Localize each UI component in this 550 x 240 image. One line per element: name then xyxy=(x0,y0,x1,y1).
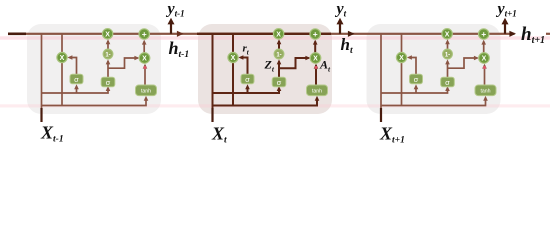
multiplier node (1-z)*h cell t+1 xyxy=(442,29,452,39)
update gate sigma cell t xyxy=(272,77,286,87)
reset multiplier node cell t-1 xyxy=(57,52,67,62)
wire tanh output to multiplier cell t xyxy=(315,65,317,85)
svg-text:X: X xyxy=(142,56,147,63)
input wire Xt rising into cell t xyxy=(212,34,214,122)
svg-text:+: + xyxy=(142,29,147,39)
arrow on recurrent line after cell t+1 xyxy=(509,31,516,37)
svg-text:σ: σ xyxy=(277,78,282,87)
input wire Xt-1 rising into cell t-1 xyxy=(41,34,43,122)
wire to gate inputs (line A) cell t xyxy=(213,88,280,93)
svg-text:σ: σ xyxy=(106,78,111,87)
svg-text:X: X xyxy=(105,31,110,38)
wire h into reset multiplier cell t-1 xyxy=(61,34,63,53)
arrow into update gate sigma cell t+1 xyxy=(445,86,450,91)
wire 1-z into top multiplier cell t xyxy=(278,41,280,49)
dark input stub below cell t xyxy=(211,108,213,122)
multiplier node (1-z)*h cell t xyxy=(273,29,283,39)
wire to candidate tanh (line C) cell t xyxy=(213,98,318,105)
artifact band under recurrent line xyxy=(0,36,550,39)
adder node cell t+1 xyxy=(479,29,489,39)
svg-text:1-: 1- xyxy=(276,52,281,58)
wire update gate z upward cell t+1 xyxy=(447,61,449,77)
wire reset multiplier output down cell t-1 xyxy=(61,62,63,105)
wire z branch to output multiplier cell t xyxy=(279,58,309,68)
cell t+1 background xyxy=(367,24,501,114)
wire to gate inputs (line A) cell t-1 xyxy=(42,88,109,93)
svg-text:X: X xyxy=(276,31,281,38)
reset gate sigma cell t xyxy=(241,74,254,84)
svg-text:tanh: tanh xyxy=(141,88,151,94)
reset gate sigma cell t+1 xyxy=(410,74,423,84)
svg-text:1-: 1- xyxy=(105,52,110,58)
wire to gate inputs (line A) cell t+1 xyxy=(381,88,448,93)
one-minus node cell t+1 xyxy=(443,49,453,59)
wire 1-z into top multiplier cell t-1 xyxy=(107,41,109,49)
one-minus node cell t-1 xyxy=(103,49,113,59)
dark input stub below cell t-1 xyxy=(40,108,42,122)
reset multiplier node cell t xyxy=(228,52,238,62)
svg-text:σ: σ xyxy=(414,75,419,84)
recurrent state line h xyxy=(8,33,515,35)
wire 1-z into top multiplier cell t+1 xyxy=(447,41,449,49)
svg-text:σ: σ xyxy=(245,75,250,84)
junction dot cell t+1 xyxy=(483,66,486,69)
svg-text:σ: σ xyxy=(445,78,450,87)
arrow into tanh cell t xyxy=(315,96,320,101)
wire h into reset multiplier cell t+1 xyxy=(401,34,403,53)
reset gate sigma cell t-1 xyxy=(70,74,83,84)
wire update gate z upward cell t-1 xyxy=(107,61,109,77)
dark recurrent segment through middle cell xyxy=(197,33,331,35)
wire multiplier to adder cell t-1 xyxy=(143,41,145,52)
wire to candidate tanh (line C) cell t-1 xyxy=(42,98,147,105)
wire reset gate to multiplier cell t+1 xyxy=(409,58,416,75)
input wire Xt+1 rising into cell t+1 xyxy=(380,34,382,122)
svg-text:X: X xyxy=(60,55,65,62)
svg-text:X: X xyxy=(399,55,404,62)
output multiplier node cell t xyxy=(310,53,321,64)
svg-text:+: + xyxy=(481,29,486,39)
svg-text:tanh: tanh xyxy=(312,88,322,94)
output branch yt-1 xyxy=(170,24,172,34)
output branch yt+1 xyxy=(504,24,506,34)
output multiplier node cell t-1 xyxy=(139,53,150,64)
wire multiplier to adder cell t xyxy=(314,41,316,52)
arrow on recurrent line after cell t-1 xyxy=(177,31,184,37)
recurrent line stub at right edge xyxy=(546,33,550,35)
wire update gate z upward cell t xyxy=(278,61,280,77)
candidate tanh box cell t-1 xyxy=(136,85,157,96)
wire h into reset multiplier cell t xyxy=(232,34,234,53)
one-minus node cell t xyxy=(274,49,284,59)
svg-text:tanh: tanh xyxy=(480,88,490,94)
reset multiplier node cell t+1 xyxy=(396,52,406,62)
arrow on recurrent line after cell t xyxy=(348,31,355,37)
svg-text:σ: σ xyxy=(74,75,79,84)
candidate tanh box cell t+1 xyxy=(475,85,496,96)
cell t-1 background xyxy=(27,24,161,114)
multiplier node (1-z)*h cell t-1 xyxy=(102,29,112,39)
dark lead-in of recurrent line xyxy=(8,33,26,36)
cell t background xyxy=(198,24,332,114)
wire tanh output to multiplier cell t-1 xyxy=(144,65,146,85)
arrow into update gate sigma cell t-1 xyxy=(106,86,111,91)
update gate sigma cell t-1 xyxy=(101,77,115,87)
wire reset multiplier output down cell t+1 xyxy=(401,62,403,105)
svg-text:X: X xyxy=(231,55,236,62)
wire reset gate to multiplier cell t-1 xyxy=(69,58,76,75)
adder node cell t xyxy=(310,29,320,39)
wire reset multiplier output down cell t xyxy=(232,62,234,105)
wire up into reset gate sigma cell t xyxy=(247,88,249,93)
svg-text:+: + xyxy=(313,29,318,39)
arrow into tanh cell t-1 xyxy=(144,96,149,101)
arrow into tanh cell t+1 xyxy=(483,96,488,101)
wire to candidate tanh (line C) cell t+1 xyxy=(381,98,486,105)
wire z branch to output multiplier cell t+1 xyxy=(448,58,478,68)
wire up into reset gate sigma cell t-1 xyxy=(76,88,78,93)
candidate tanh box cell t xyxy=(307,85,328,96)
update gate sigma cell t+1 xyxy=(441,77,455,87)
adder node cell t-1 xyxy=(139,29,149,39)
output multiplier node cell t+1 xyxy=(479,53,490,64)
wire tanh output to multiplier cell t+1 xyxy=(484,65,486,85)
junction dot cell t xyxy=(315,66,318,69)
junction dot cell t-1 xyxy=(144,66,147,69)
artifact band lower xyxy=(0,104,550,107)
wire multiplier to adder cell t+1 xyxy=(483,41,485,52)
svg-text:X: X xyxy=(445,31,450,38)
arrow into update gate sigma cell t xyxy=(277,86,282,91)
dark input stub below cell t+1 xyxy=(380,108,382,122)
wire z branch to output multiplier cell t-1 xyxy=(108,58,138,68)
wire up into reset gate sigma cell t+1 xyxy=(415,88,417,93)
svg-text:X: X xyxy=(482,56,487,63)
svg-text:X: X xyxy=(313,56,318,63)
output branch yt xyxy=(339,24,341,34)
wire reset gate to multiplier cell t xyxy=(240,58,247,75)
svg-text:1-: 1- xyxy=(445,52,450,58)
